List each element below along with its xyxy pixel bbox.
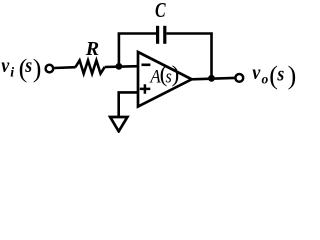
svg-text:i: i [10,66,14,81]
wire non-inverting input to ground [119,92,139,117]
capacitor C right plate [163,26,166,44]
wire resistor to op-amp inverting input [105,65,139,68]
svg-text:s: s [24,55,32,77]
op-amp U1 triangle [138,52,192,107]
resistor R [75,60,104,73]
svg-text:o: o [262,72,269,87]
op-amp plus input marker [140,84,151,94]
node junction dot at output [208,75,215,82]
svg-text:): ) [172,61,180,86]
ground symbol [110,117,127,131]
svg-text:): ) [33,54,42,83]
svg-text:): ) [288,61,297,90]
svg-text:R: R [85,38,99,60]
node vi input terminal circle [46,65,54,73]
node junction dot at inverting input [116,63,123,70]
svg-text:C: C [155,0,166,22]
op-amp minus input marker [142,64,151,67]
wire input terminal to resistor [54,66,75,69]
capacitor C left plate [156,26,159,44]
node vo output terminal circle [235,74,243,82]
svg-text:s: s [277,64,285,86]
svg-text:v: v [1,55,10,77]
wire feedback left vertical [118,34,121,67]
svg-text:v: v [252,62,261,84]
wire feedback top left segment [118,32,157,35]
wire op-amp output to terminal [192,78,235,79]
wire feedback top right segment [166,32,212,35]
wire feedback right vertical [210,34,213,79]
